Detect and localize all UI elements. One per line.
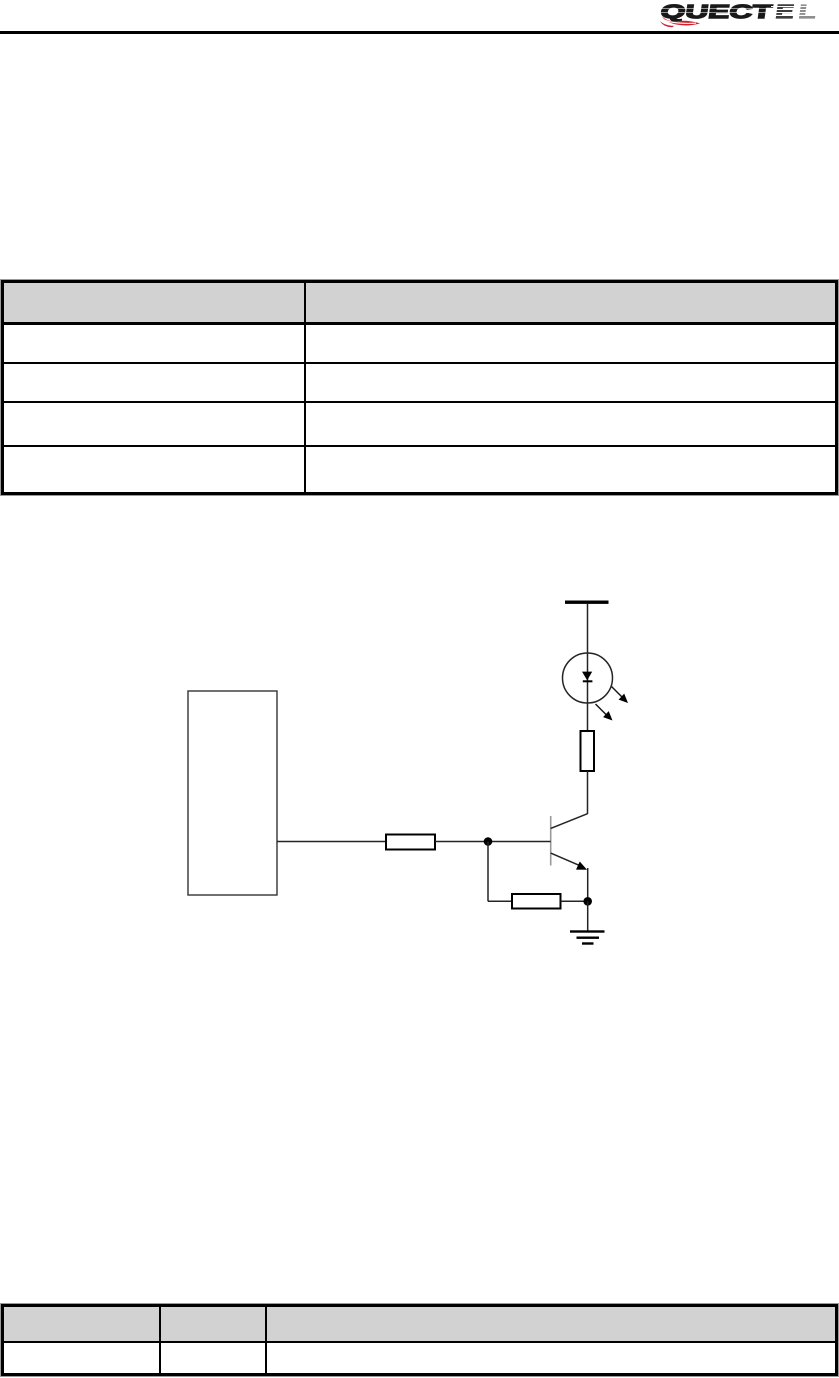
transistor Q1 bbox=[551, 814, 588, 870]
light arrow 1 bbox=[612, 687, 629, 704]
wire: node 2 to ground bbox=[587, 901, 589, 930]
ground bbox=[570, 930, 605, 944]
LED circle bbox=[563, 653, 613, 703]
logo text QUECTEL bbox=[659, 2, 817, 23]
wire: to pulldown resistor bbox=[488, 900, 512, 902]
header rule bbox=[0, 31, 839, 34]
table 1 header row bbox=[4, 283, 835, 325]
light arrow 2 bbox=[596, 704, 613, 721]
table 2 column divider 1 bbox=[159, 1307, 161, 1373]
table 1 bbox=[1, 280, 838, 495]
node 2 (emitter junction) bbox=[583, 897, 592, 906]
wire: resistor to collector bend bbox=[587, 771, 589, 814]
wire: emitter to node 2 bbox=[587, 868, 589, 901]
table 1 row line 1 bbox=[4, 362, 835, 364]
table 2 (bottom) bbox=[1, 1304, 838, 1376]
power rail bar bbox=[565, 601, 609, 604]
wire: pulldown to node 2 bbox=[561, 900, 588, 902]
wire: R1 to node 1 bbox=[435, 841, 551, 843]
LED triangle bbox=[582, 672, 592, 681]
resistor R1 (base series) bbox=[386, 835, 435, 850]
logo red swoosh bbox=[662, 16, 700, 25]
node 1 (base junction) bbox=[484, 837, 493, 846]
module box bbox=[188, 691, 277, 895]
Quectel logo bbox=[655, 0, 839, 32]
resistor (pulldown) bbox=[512, 894, 561, 909]
table 1 row line 3 bbox=[4, 445, 835, 447]
table 1 row line 2 bbox=[4, 401, 835, 403]
wire: module to resistor R1 bbox=[277, 841, 386, 843]
table 1 column divider bbox=[304, 283, 306, 492]
resistor (LED series) bbox=[581, 731, 595, 771]
LED cathode bar bbox=[583, 680, 593, 682]
wire: node 1 down bbox=[487, 842, 489, 902]
wire: rail to LED and through to resistor bbox=[587, 604, 589, 731]
table 2 column divider 2 bbox=[265, 1307, 267, 1373]
table 2 header row bbox=[4, 1307, 835, 1343]
logo stripes bbox=[771, 7, 828, 16]
